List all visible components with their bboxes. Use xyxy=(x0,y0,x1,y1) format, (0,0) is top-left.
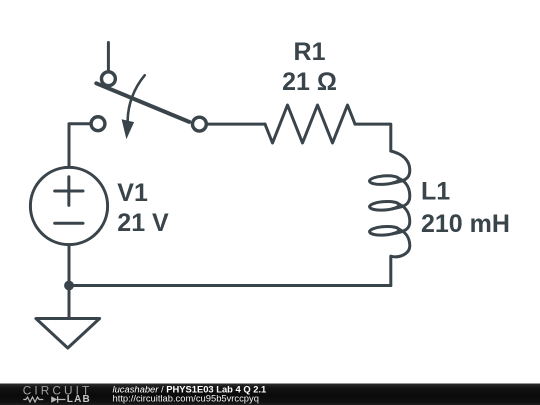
svg-text:http://circuitlab.com/cu95b5vr: http://circuitlab.com/cu95b5vrccpyq xyxy=(113,392,259,403)
inductor L1 loop ellipse 2 xyxy=(369,201,399,211)
resistor R1 zigzag xyxy=(265,105,355,143)
wire L1 bottom lead xyxy=(389,257,392,286)
wire from R1 to top-right corner and down to L1 xyxy=(355,124,391,151)
node junction dot xyxy=(64,281,74,291)
bottom wire from node to L1 xyxy=(69,284,391,287)
switch SW1 common terminal circle (right) xyxy=(192,117,206,131)
svg-text:LAB: LAB xyxy=(67,394,91,405)
switch SW1 arrowhead xyxy=(122,119,135,139)
inductor L1 coil wave xyxy=(391,151,410,257)
wire V1 bottom to ground node xyxy=(68,245,71,286)
svg-text:210 mH: 210 mH xyxy=(421,210,510,238)
switch SW1 top stub wire xyxy=(107,43,110,72)
switch SW1 lever arm xyxy=(96,83,189,122)
svg-text:21 V: 21 V xyxy=(117,209,169,237)
inductor L1 loop ellipse 1 xyxy=(369,175,399,185)
inductor L1 loop ellipse 3 xyxy=(369,226,399,236)
V1 minus sign xyxy=(55,222,83,225)
CircuitLab logo resistor squiggle xyxy=(23,397,43,402)
svg-text:R1: R1 xyxy=(294,38,326,66)
switch SW1 actuation arrow arc xyxy=(128,75,145,121)
switch SW1 throw terminal circle (top) xyxy=(101,72,115,86)
svg-text:L1: L1 xyxy=(421,178,450,206)
voltage source V1 circle xyxy=(30,167,107,244)
switch SW1 left terminal circle xyxy=(91,117,105,131)
svg-text:21 Ω: 21 Ω xyxy=(282,68,337,96)
CircuitLab logo diode symbol xyxy=(51,396,57,403)
wire from switch left terminal to V1 xyxy=(69,124,91,168)
svg-text:V1: V1 xyxy=(117,179,148,207)
wire from switch common to resistor R1 xyxy=(207,123,265,126)
V1 plus sign xyxy=(55,177,83,206)
wire node to ground xyxy=(68,286,71,319)
ground symbol triangle xyxy=(36,319,100,349)
